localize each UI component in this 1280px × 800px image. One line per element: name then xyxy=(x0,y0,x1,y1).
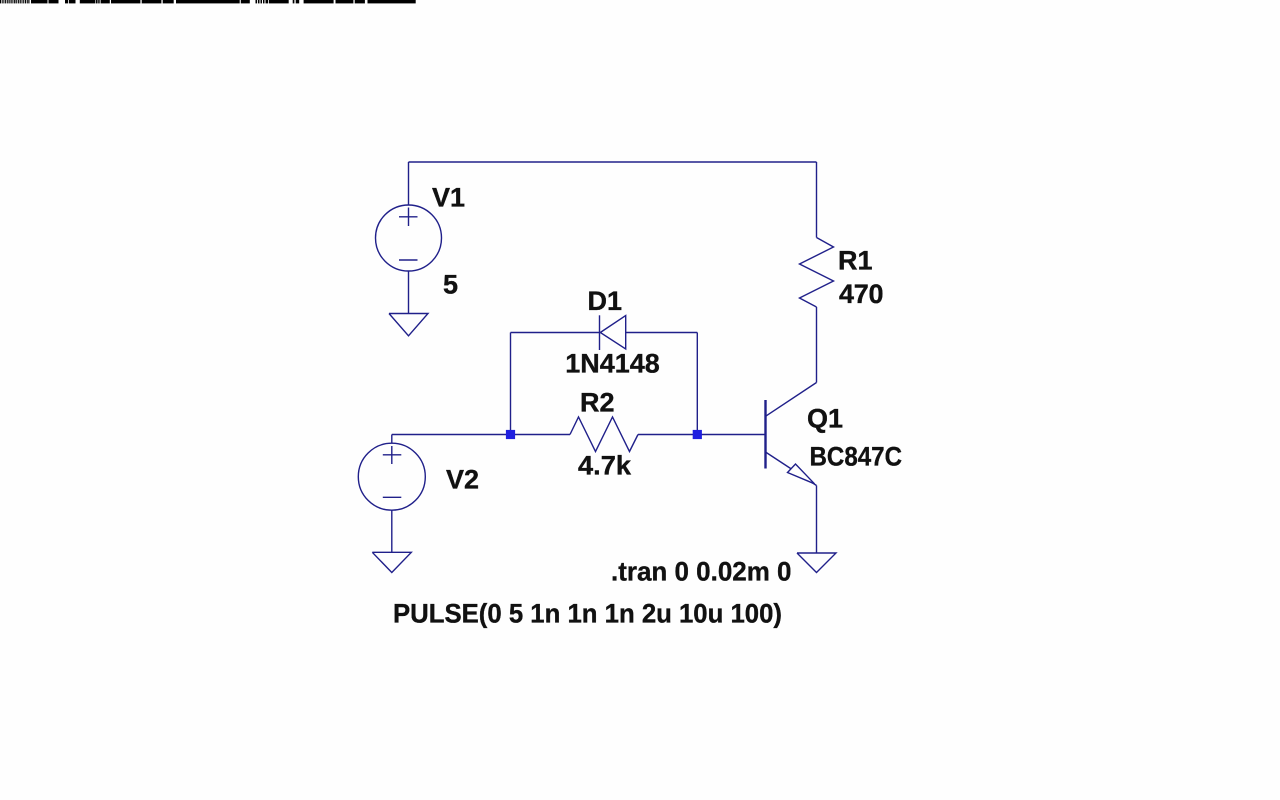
svg-text:5: 5 xyxy=(443,270,458,300)
wire D1 right vertical xyxy=(696,333,698,435)
resistor R1 xyxy=(800,238,834,308)
wire Q1 emitter to ground xyxy=(816,486,818,554)
svg-text:1N4148: 1N4148 xyxy=(565,349,660,379)
svg-text:.tran 0 0.02m 0: .tran 0 0.02m 0 xyxy=(611,557,792,587)
transistor Q1 xyxy=(766,383,817,486)
node B junction xyxy=(693,430,702,439)
wire top rail xyxy=(409,161,817,163)
wire D1 cathode side xyxy=(626,332,698,334)
node A junction xyxy=(506,430,515,439)
svg-text:R2: R2 xyxy=(580,388,615,418)
wire V1 top xyxy=(408,162,410,206)
svg-text:R1: R1 xyxy=(838,246,873,276)
svg-text:4.7k: 4.7k xyxy=(578,451,632,481)
clipped text strip at top xyxy=(0,0,416,3)
wire V2 top xyxy=(391,435,393,444)
ground below V2 xyxy=(372,552,411,572)
svg-text:V1: V1 xyxy=(432,183,465,213)
svg-text:PULSE(0 5 1n 1n 1n 2u 10u 100): PULSE(0 5 1n 1n 1n 2u 10u 100) xyxy=(393,599,782,629)
wire node B to Q1 base xyxy=(638,434,766,436)
wire D1 anode side xyxy=(511,332,600,334)
voltage source V2 xyxy=(358,443,425,510)
wire D1 left vertical xyxy=(510,333,512,435)
svg-text:D1: D1 xyxy=(588,286,623,316)
voltage source V1 xyxy=(376,205,442,271)
wire R1 top xyxy=(816,162,818,238)
ground below Q1 xyxy=(797,553,836,573)
wire V2 to node A xyxy=(392,434,570,436)
wire V2 bottom xyxy=(391,510,393,552)
wire R1 bottom to Q1 collector xyxy=(816,307,818,383)
svg-text:BC847C: BC847C xyxy=(810,442,903,472)
svg-text:V2: V2 xyxy=(446,465,479,495)
wire V1 bottom xyxy=(408,271,410,314)
resistor R2 xyxy=(570,417,638,452)
ground below V1 xyxy=(389,314,428,336)
diode D1 xyxy=(600,315,626,350)
svg-text:Q1: Q1 xyxy=(807,404,843,434)
svg-text:470: 470 xyxy=(839,279,884,309)
